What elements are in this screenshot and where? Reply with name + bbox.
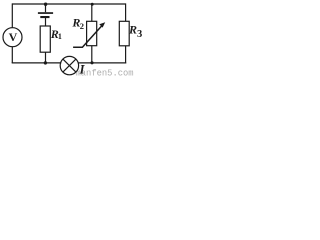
svg-text:1: 1 xyxy=(58,32,62,41)
svg-text:2: 2 xyxy=(80,21,84,31)
svg-text:R: R xyxy=(128,23,137,37)
svg-text:V: V xyxy=(9,30,18,44)
svg-text:3: 3 xyxy=(137,29,142,40)
